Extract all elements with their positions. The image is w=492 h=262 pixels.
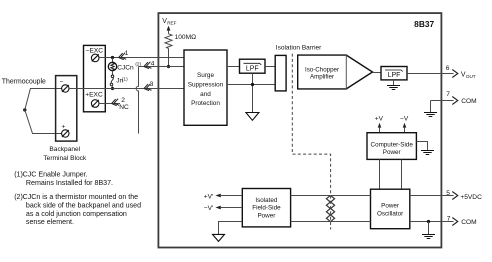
- label Vout: [461, 71, 476, 79]
- ground field triangle lower: [213, 234, 225, 241]
- svg-text:LPF: LPF: [388, 72, 401, 79]
- svg-text:−V′: −V′: [204, 205, 214, 212]
- VREF arrow: [167, 26, 171, 34]
- svg-text:100MΩ: 100MΩ: [175, 34, 196, 41]
- arrow -V' left: [215, 206, 242, 210]
- wire pin2 from +EXC: [99, 103, 120, 105]
- wire LPF2 to pin6: [407, 73, 454, 75]
- svg-text:−V: −V: [400, 116, 409, 123]
- svg-text:Surge: Surge: [197, 72, 214, 79]
- pin arrow 2: [111, 99, 119, 107]
- resistor R 100MOhm: [165, 34, 196, 49]
- svg-text:Power: Power: [381, 203, 399, 210]
- svg-text:(1): (1): [14, 171, 23, 179]
- pin arrow 7 out lower: [452, 218, 458, 226]
- svg-text:Iso-Chopper: Iso-Chopper: [305, 67, 339, 74]
- pin arrow 1: [118, 53, 126, 61]
- junction COM lower: [427, 220, 430, 223]
- svg-text:1: 1: [125, 50, 129, 57]
- wire COM pin7 upper: [431, 100, 454, 102]
- svg-text:6: 6: [446, 65, 450, 72]
- coupling element isolation: [275, 55, 286, 91]
- wire TC+ vertical with hop over pin3 wire: [136, 67, 138, 134]
- svg-text:2: 2: [121, 97, 125, 104]
- ground under LPF2: [387, 80, 400, 90]
- pin arrow 4: [143, 62, 151, 70]
- svg-text:COM: COM: [461, 98, 476, 105]
- svg-text:(2): (2): [14, 193, 23, 201]
- svg-text:CJC Enable Jumper.: CJC Enable Jumper.: [23, 171, 88, 179]
- junction resistor to pin4 wire: [167, 65, 170, 68]
- svg-text:5: 5: [446, 190, 450, 197]
- thermocouple bead junction: [23, 108, 26, 111]
- isolation barrier dashed line: [292, 54, 330, 230]
- svg-text:Remains Installed for 8B37.: Remains Installed for 8B37.: [26, 179, 113, 187]
- block LPF2: [381, 67, 407, 80]
- wire pin4 horizontal to surge box: [139, 66, 185, 68]
- wire oscillator to pin5: [410, 195, 454, 197]
- svg-text:Isolation Barrier: Isolation Barrier: [276, 45, 322, 52]
- wire thermocouple negative lead: [25, 89, 62, 110]
- svg-text:+5VDC: +5VDC: [460, 194, 482, 201]
- svg-text:Power: Power: [383, 149, 401, 156]
- wire field power to transformer top: [291, 195, 331, 197]
- svg-text:Thermocouple: Thermocouple: [2, 79, 46, 86]
- svg-text:Computer-Side: Computer-Side: [371, 141, 414, 148]
- arrow +V' left: [215, 194, 242, 198]
- svg-text:REF: REF: [167, 21, 176, 26]
- svg-text:as a cold junction compensatio: as a cold junction compensation: [26, 210, 127, 218]
- arrow -V up: [403, 123, 407, 133]
- svg-text:LPF: LPF: [246, 66, 259, 73]
- wire pin3 from TC- terminal to surge box: [69, 88, 184, 90]
- pin arrow 3: [143, 84, 151, 92]
- svg-text:Suppression: Suppression: [188, 81, 224, 88]
- ground under COM lower: [422, 222, 435, 239]
- thermistor CJCn: [108, 58, 141, 76]
- junction Jn bottom on pin3 wire: [111, 87, 114, 90]
- junction CJC top: [111, 56, 114, 59]
- wire LPF1 bottom to ground: [252, 73, 254, 112]
- block Computer-Side Power: [367, 133, 416, 160]
- wire transformer to oscillator top: [331, 195, 371, 197]
- svg-text:OUT: OUT: [466, 74, 476, 79]
- ground right of CSP: [421, 151, 434, 155]
- wire amplifier to LPF2: [373, 72, 382, 74]
- wire CSP to oscillator right: [401, 159, 403, 189]
- ground field triangle under LPF1: [246, 113, 259, 121]
- wire CSP to ground right: [416, 142, 427, 151]
- svg-text:(2): (2): [135, 61, 141, 66]
- module outline 8B37: [158, 13, 441, 247]
- svg-text:NC: NC: [119, 104, 129, 111]
- svg-text:COM: COM: [461, 219, 476, 226]
- svg-text:Field-Side: Field-Side: [252, 205, 281, 212]
- junction lower wire: [251, 83, 254, 86]
- svg-text:Terminal Block: Terminal Block: [43, 155, 87, 162]
- block LPF1: [240, 59, 266, 73]
- pin arrow 6 out: [452, 70, 458, 78]
- wire field power to ground: [219, 222, 243, 235]
- EXC box: [84, 45, 106, 111]
- wire thermocouple positive lead: [25, 110, 62, 134]
- svg-text:Backpanel: Backpanel: [49, 146, 80, 153]
- wire surge to LPF1: [227, 66, 240, 68]
- svg-text:CJCn: CJCn: [117, 65, 134, 72]
- pin arrow 7 out upper: [452, 97, 458, 105]
- wire oscillator to pin7 lower: [410, 221, 454, 223]
- svg-text:CJCn is a thermistor mounted o: CJCn is a thermistor mounted on the: [23, 193, 139, 201]
- block Isolated Field-Side Power: [242, 189, 290, 227]
- terminal screw minus: [62, 85, 69, 92]
- svg-text:Protection: Protection: [191, 100, 220, 107]
- svg-text:8B37: 8B37: [414, 19, 434, 29]
- node VREF label: [162, 18, 176, 25]
- note 1: [14, 171, 113, 187]
- label Backpanel Terminal Block: [43, 146, 87, 162]
- svg-text:(1): (1): [122, 76, 128, 81]
- svg-text:+V′: +V′: [204, 193, 214, 200]
- block Surge Suppression and Protection: [184, 50, 227, 125]
- ground under COM upper: [424, 101, 437, 117]
- op-amp U1 Iso-Chopper Amplifier: [298, 55, 373, 89]
- pin arrow 5 out: [452, 192, 458, 200]
- note 2: [14, 193, 141, 226]
- block Power Oscillator: [371, 189, 410, 229]
- svg-text:and: and: [200, 91, 211, 98]
- svg-text:Power: Power: [257, 212, 275, 219]
- arrow +V up: [378, 123, 382, 133]
- svg-text:Amplifier: Amplifier: [310, 74, 334, 81]
- wire field power to transformer bottom: [291, 221, 331, 223]
- terminal screw plus: [62, 130, 69, 137]
- wire surge lower output to coupling element: [227, 84, 275, 86]
- svg-text:Oscillator: Oscillator: [377, 211, 403, 218]
- svg-text:+V: +V: [375, 116, 384, 123]
- wire resistor lead down to TC+ wire: [168, 49, 170, 67]
- wire LPF1 to coupling element: [265, 66, 275, 68]
- transformer T1: [326, 196, 334, 222]
- wire pin1 from -EXC to surge box: [99, 57, 184, 59]
- svg-text:7: 7: [447, 216, 451, 223]
- svg-text:+EXC: +EXC: [85, 92, 103, 99]
- terminal screw +EXC: [91, 100, 99, 108]
- terminal screw -EXC: [91, 54, 99, 62]
- backpanel terminal block box: [56, 76, 77, 142]
- wire CSP to oscillator left: [379, 159, 381, 189]
- svg-text:back side of the backpanel and: back side of the backpanel and used: [26, 201, 141, 209]
- jumper Jn: [110, 75, 128, 89]
- svg-text:7: 7: [446, 91, 450, 98]
- wire transformer to oscillator bottom: [331, 221, 371, 223]
- svg-text:3: 3: [150, 81, 154, 88]
- svg-text:4: 4: [151, 60, 155, 67]
- svg-text:Isolated: Isolated: [255, 197, 278, 204]
- svg-text:sense element.: sense element.: [26, 218, 74, 226]
